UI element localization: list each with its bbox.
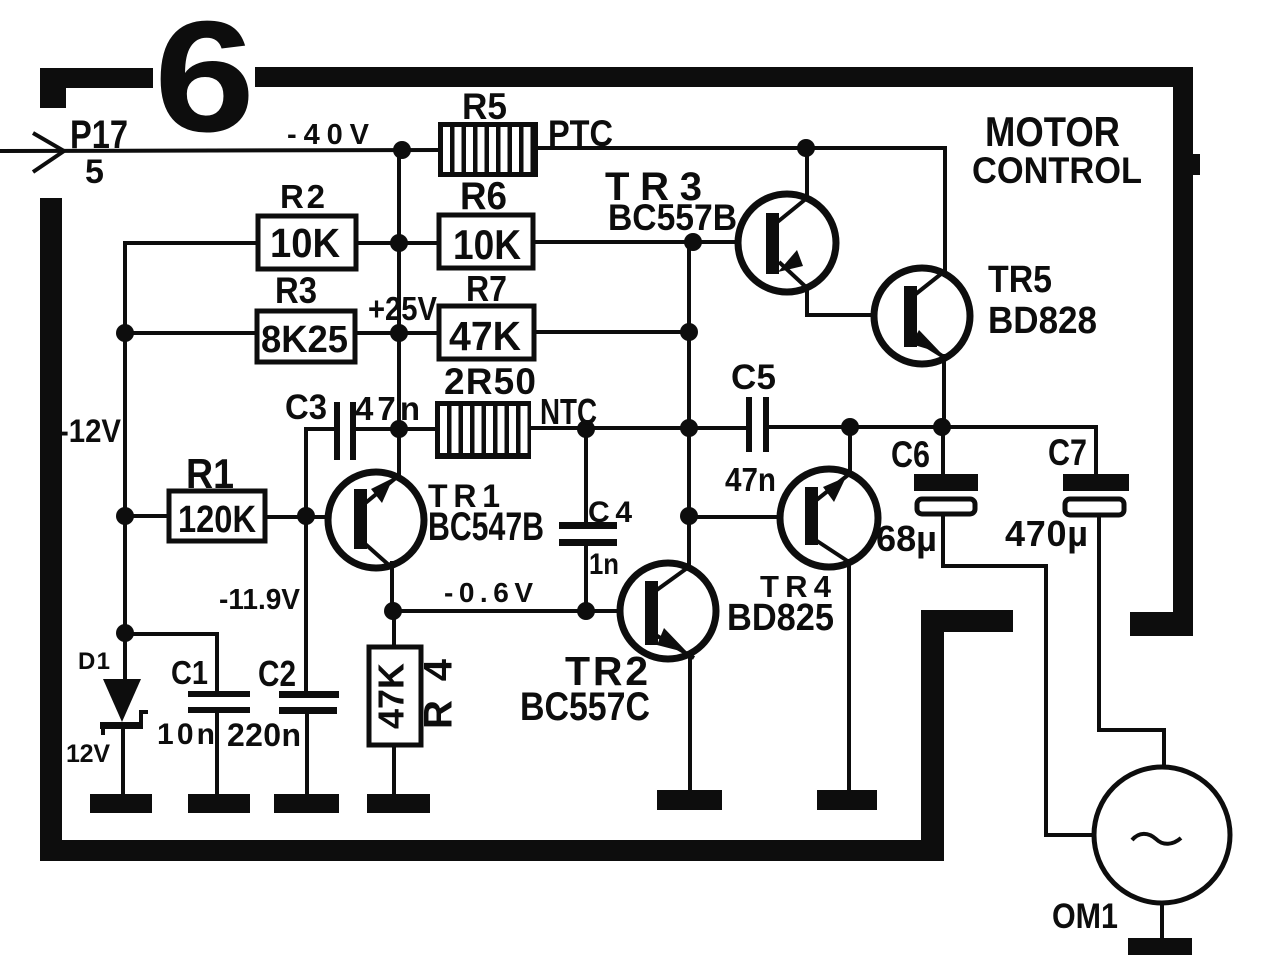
ground bar under C2: [274, 794, 339, 813]
node junction D1 top: [116, 624, 134, 642]
border frame: right bar foot: [1130, 612, 1193, 636]
node junction TR4 collector row: [841, 418, 859, 436]
transistor TR4 BD825: [780, 469, 878, 567]
wire C2 branch vertical: [304, 429, 308, 692]
svg-text:C6: C6: [891, 434, 930, 475]
svg-text:68µ: 68µ: [876, 518, 937, 559]
motor OM1: [1094, 767, 1230, 903]
border frame: top bar main: [255, 67, 1193, 87]
wire C4 branch top: [584, 429, 588, 523]
node junction TR3 collector at rail: [797, 139, 815, 157]
ground bar under C1: [188, 794, 250, 813]
svg-text:1n: 1n: [589, 548, 619, 581]
svg-text:BC547B: BC547B: [428, 505, 544, 549]
resistor R6 box: [439, 215, 533, 268]
wire C4 branch bottom: [584, 546, 588, 611]
svg-text:D1: D1: [78, 648, 110, 675]
node junction R1 row left: [116, 507, 134, 525]
wire TR5 emitter down: [942, 356, 946, 427]
node junction TR1 emitter / R4: [384, 602, 402, 620]
svg-text:C3: C3: [285, 388, 327, 427]
wire R7 to vertical rail: [534, 330, 689, 334]
svg-text:MOTOR: MOTOR: [985, 108, 1120, 155]
border frame: top-left corner block: [40, 68, 66, 108]
svg-text:P17: P17: [70, 113, 128, 157]
wire R2 row left: [125, 243, 258, 677]
wire C6 bottom to motor left: [943, 515, 1093, 835]
svg-text:220n: 220n: [227, 717, 301, 753]
svg-text:47K: 47K: [371, 663, 412, 729]
wire TR2 emitter to ground: [688, 655, 692, 792]
wire TR4 emitter to ground: [847, 561, 851, 792]
wire D1 cathode to ground: [121, 727, 125, 796]
svg-text:47n: 47n: [355, 390, 420, 427]
node junction R3/R7 row at rail: [390, 324, 408, 342]
ground bar under TR2: [657, 790, 722, 810]
wire R3 to R7: [355, 331, 439, 335]
node junction C4 top: [577, 420, 595, 438]
transistor TR5 BD828: [874, 268, 970, 364]
svg-text:8K25: 8K25: [261, 319, 348, 361]
wire C3 left to C2 branch: [306, 427, 337, 431]
node junction R2/R6 row: [390, 234, 408, 252]
svg-text:47n: 47n: [725, 461, 776, 498]
svg-text:10K: 10K: [270, 220, 340, 266]
wire -40V rail from P17 to R5: [0, 150, 438, 151]
resistor R4 box: [369, 647, 421, 745]
resistor R3 box: [257, 311, 355, 362]
wire C2 bottom to ground: [305, 713, 309, 796]
wire R6 to TR3 base: [533, 240, 738, 244]
svg-text:10n: 10n: [157, 718, 215, 751]
wire TR3 collector down and right to TR5 base: [807, 288, 875, 315]
border frame: right bar nub: [1193, 154, 1200, 175]
border frame: bottom step column: [921, 610, 944, 861]
svg-text:47K: 47K: [449, 313, 521, 359]
wire -40V rail from R5 to TR5 collector corner: [538, 148, 945, 275]
capacitor C4 plates: [559, 522, 617, 529]
capacitor C7 electrolytic plates: [1063, 474, 1129, 491]
wire NTC to C5: [531, 426, 747, 430]
svg-text:10K: 10K: [453, 221, 521, 268]
svg-text:C1: C1: [171, 654, 208, 691]
wire D1 node to C1: [125, 634, 217, 692]
svg-text:TR5: TR5: [988, 259, 1052, 301]
resistor NTC hatched box (2R50): [435, 401, 531, 459]
svg-text:120K: 120K: [178, 499, 256, 541]
border frame: right bar: [1173, 67, 1193, 619]
wire -0.6V row to TR2 base: [392, 609, 620, 613]
svg-text:-11.9V: -11.9V: [219, 584, 301, 616]
node junction TR5 emitter row: [933, 418, 951, 436]
resistor R1 box: [169, 491, 265, 541]
transistor TR2 BC557C: [620, 563, 716, 659]
svg-text:R1: R1: [186, 450, 234, 497]
wire TR4 base: [689, 515, 780, 519]
border frame: bottom bar: [40, 840, 944, 861]
svg-text:470µ: 470µ: [1005, 513, 1088, 554]
svg-text:R5: R5: [462, 86, 507, 127]
svg-text:BD828: BD828: [988, 300, 1097, 342]
node junction TR3 base: [684, 233, 702, 251]
svg-text:-12V: -12V: [59, 413, 122, 449]
svg-text:R7: R7: [466, 268, 507, 309]
svg-text:+25V: +25V: [368, 290, 437, 327]
transistor TR1 BC547B: [328, 472, 424, 568]
wire R4 top: [392, 611, 396, 647]
node junction NTC row at rail: [390, 420, 408, 438]
border frame: left bar: [40, 198, 62, 841]
resistor R2 box: [258, 216, 356, 269]
svg-text:6: 6: [154, 0, 255, 165]
svg-text:R2: R2: [280, 178, 325, 215]
node junction TR4 base: [680, 507, 698, 525]
node junction C4 bottom: [577, 602, 595, 620]
svg-text:C2: C2: [258, 653, 296, 694]
node P17 input arrow: [33, 133, 64, 172]
svg-text:2R50: 2R50: [444, 361, 536, 402]
resistor R5 PTC hatched box: [438, 122, 538, 177]
wire TR3 collector up to rail: [805, 148, 809, 198]
capacitor C6 electrolytic plates: [914, 474, 978, 491]
node junction NTC row at x=689: [680, 419, 698, 437]
svg-text:C5: C5: [731, 358, 776, 397]
border frame: bottom step foot: [944, 610, 1013, 632]
svg-text:12V: 12V: [66, 740, 110, 768]
ground bar under motor OM1: [1128, 938, 1192, 955]
svg-text:BC557B: BC557B: [608, 197, 737, 238]
node junction on -40V rail at x=402: [393, 141, 411, 159]
capacitor C2 plates: [279, 691, 339, 698]
diode D1 zener 12V: [100, 679, 148, 735]
svg-text:BC557C: BC557C: [520, 685, 650, 729]
wire R1 to TR1 base: [265, 515, 328, 519]
wire vertical rail x=399 from -40V down to TR1 collector: [397, 150, 401, 477]
node junction C2 branch at R1 row: [297, 507, 315, 525]
ground bar under D1: [90, 794, 152, 813]
wire motor bottom to ground: [1160, 903, 1164, 940]
svg-text:5: 5: [85, 153, 104, 191]
node junction R3 row left: [116, 324, 134, 342]
wire TR1 emitter down: [390, 563, 394, 611]
wire R2 to R6: [356, 241, 439, 245]
svg-text:OM1: OM1: [1052, 897, 1118, 936]
wire vertical rail x=689 from TR3 base row to TR2 collector: [687, 242, 691, 566]
svg-text:C7: C7: [1048, 432, 1087, 473]
node junction R7 right: [680, 323, 698, 341]
wire C7 bottom to motor top: [1099, 516, 1164, 767]
wire R1 row left: [125, 514, 169, 518]
capacitor C1 plates: [188, 691, 250, 697]
capacitor C3 plates: [334, 402, 340, 460]
resistor R7 box: [439, 306, 534, 359]
svg-text:R3: R3: [275, 270, 317, 311]
wire C5 to C7 corner: [767, 427, 1096, 475]
wire R3 row left: [125, 331, 257, 335]
transistor TR3 BC557B: [738, 194, 836, 292]
svg-text:CONTROL: CONTROL: [972, 150, 1142, 191]
wire C6 top branch: [941, 427, 945, 475]
ground bar under TR4: [817, 790, 877, 810]
ground bar under R4: [367, 794, 430, 813]
wire R4 bottom to ground: [392, 745, 396, 794]
svg-text:PTC: PTC: [548, 113, 613, 154]
capacitor C5 plates: [746, 397, 752, 452]
wire C1 bottom to ground: [215, 712, 219, 796]
svg-text:BD825: BD825: [727, 597, 834, 639]
wire C3 right to NTC: [353, 427, 436, 431]
wire TR4 collector up: [848, 427, 852, 475]
svg-text:NTC: NTC: [540, 391, 597, 432]
svg-text:R6: R6: [460, 175, 507, 218]
border frame: top-left bar: [40, 68, 153, 88]
